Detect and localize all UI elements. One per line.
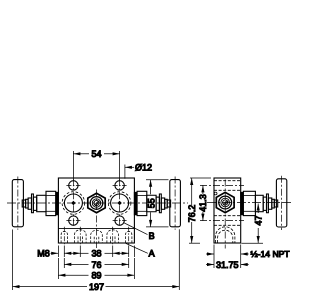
right valve flange washer bbox=[134, 192, 136, 214]
left valve stem piece bbox=[26, 199, 29, 208]
side view centerlines bbox=[200, 180, 244, 249]
right valve stem piece bbox=[165, 199, 168, 208]
svg-text:M8: M8 bbox=[37, 249, 50, 259]
right valve handle bar bbox=[170, 180, 181, 227]
svg-text:54: 54 bbox=[91, 149, 101, 159]
left valve handle bar bbox=[12, 180, 23, 227]
vertical centerline right hole column bbox=[119, 179, 121, 226]
side valve bonnet bbox=[243, 191, 255, 215]
svg-text:Ø12: Ø12 bbox=[135, 163, 152, 173]
svg-text:47: 47 bbox=[253, 215, 263, 225]
svg-text:B: B bbox=[149, 231, 155, 241]
svg-text:89: 89 bbox=[91, 271, 101, 281]
side valve packing cylinder bbox=[255, 195, 263, 211]
left valve hub bbox=[22, 200, 25, 207]
dimension 89 bbox=[58, 258, 134, 279]
side view vent hole bbox=[214, 192, 217, 195]
label A leader bbox=[126, 243, 148, 253]
side view bonnet hex nut bbox=[216, 192, 234, 212]
bolt hole top-left bbox=[69, 181, 78, 190]
svg-text:76: 76 bbox=[91, 260, 101, 270]
left valve bonnet hex bbox=[46, 191, 56, 215]
right valve gland bbox=[156, 197, 159, 210]
left valve locknut bbox=[28, 198, 31, 209]
svg-text:197: 197 bbox=[89, 282, 104, 292]
right valve gland lip bbox=[159, 194, 161, 213]
dimension 54 bbox=[73, 151, 119, 181]
dimension diameter 12 bolt holes bbox=[125, 165, 134, 179]
side valve gland lip bbox=[267, 194, 269, 213]
dimension row 38 with side arrows bbox=[58, 246, 134, 258]
side valve locknut bbox=[268, 198, 271, 209]
svg-text:31.75: 31.75 bbox=[216, 260, 239, 270]
bolt hole bottom-right bbox=[115, 216, 124, 225]
dimension 41.3 bbox=[201, 185, 204, 220]
left valve gland lip bbox=[32, 194, 34, 213]
main horizontal centerline front view bbox=[7, 202, 188, 204]
side view main axis centerline bbox=[207, 202, 292, 204]
label B leader bbox=[124, 223, 148, 235]
left valve packing cylinder bbox=[37, 195, 46, 211]
svg-text:38: 38 bbox=[91, 249, 101, 259]
svg-text:76.2: 76.2 bbox=[187, 205, 197, 223]
side valve flange washer bbox=[241, 192, 243, 214]
left valve flange washer bbox=[56, 192, 58, 214]
serrated zone hole centerlines bbox=[64, 227, 128, 244]
flange face parting line bbox=[58, 227, 134, 229]
side view block bbox=[214, 178, 241, 243]
side view hidden hole lines bbox=[214, 181, 241, 226]
vertical centerline center valve bbox=[96, 190, 98, 249]
right valve packing cylinder bbox=[147, 195, 156, 211]
center valve hex nut bbox=[88, 193, 105, 213]
svg-text:A: A bbox=[149, 249, 155, 259]
svg-text:½-14 NPT: ½-14 NPT bbox=[251, 249, 291, 259]
dimension 47 bbox=[242, 204, 264, 244]
side view NPT port hidden dome bbox=[216, 227, 235, 243]
dimension 76 bbox=[64, 258, 128, 268]
right process port circle bbox=[108, 192, 131, 215]
side valve handle bar bbox=[276, 179, 286, 227]
side valve stem piece bbox=[272, 199, 275, 208]
svg-text:55: 55 bbox=[146, 198, 156, 208]
vertical centerline left hole column bbox=[72, 179, 74, 226]
bolt hole top-right bbox=[115, 181, 124, 190]
left valve gland bbox=[33, 197, 36, 210]
dimension 55 handle length bbox=[146, 180, 169, 227]
dimension 197 bbox=[13, 229, 180, 290]
right valve locknut bbox=[161, 198, 164, 209]
front view block bbox=[58, 178, 134, 243]
dimension 31.75 bbox=[206, 245, 249, 269]
right valve hub bbox=[167, 200, 170, 207]
dimension 76.2 bbox=[189, 178, 211, 243]
svg-text:41.3: 41.3 bbox=[198, 194, 208, 212]
left process port circle bbox=[62, 192, 85, 215]
side valve hub bbox=[274, 200, 277, 207]
bolt hole bottom-left bbox=[69, 216, 78, 225]
serrated mounting zone hidden holes bbox=[61, 230, 132, 243]
side valve gland bbox=[263, 197, 266, 210]
right valve bonnet hex bbox=[137, 191, 147, 215]
